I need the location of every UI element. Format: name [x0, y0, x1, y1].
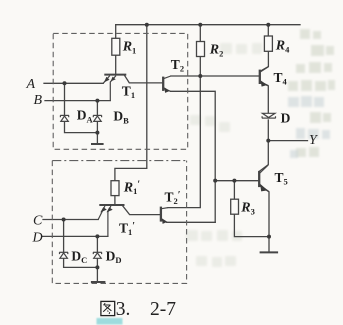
wire DC bottom and link to DD bottom — [64, 258, 98, 267]
ground (output stage) — [260, 251, 279, 253]
wire T5 emitter down to ground — [260, 186, 269, 252]
diode D (output level shift) — [262, 113, 276, 118]
wire R3 bottom leg to emitter junction — [234, 214, 269, 236]
transistor T4 — [260, 67, 269, 86]
wire T1' collector to T2' base — [123, 206, 161, 215]
svg-text:D: D — [32, 231, 43, 246]
node rail-R4 — [266, 23, 270, 27]
wire Vcc top rail — [116, 24, 300, 26]
wire DA bottom and link to DB bottom — [65, 121, 98, 132]
node R3-T5emitter — [267, 235, 271, 239]
svg-text:B: B — [34, 93, 43, 108]
node DA-DB-ground — [95, 131, 99, 135]
wire C input line — [43, 219, 98, 221]
resistor R4 — [264, 36, 272, 51]
node B-DB — [95, 99, 99, 103]
wire T2' emitter run — [167, 221, 215, 223]
wire phase-splitter emitters node to T5 base — [215, 180, 259, 182]
wire R4 top leg — [267, 25, 269, 36]
transistor T1 (multi-emitter input) — [103, 75, 126, 101]
wire T1 collector to T2 base — [125, 75, 163, 83]
wire T2 emitter run and down — [171, 91, 216, 222]
resistor R1' — [111, 181, 119, 196]
node DC-DD-ground — [95, 265, 99, 269]
diode DB — [93, 115, 102, 121]
wire A input line — [44, 82, 103, 84]
transistor T1' (multi-emitter input) — [98, 205, 124, 236]
wire T4 emitter down to diode D — [260, 83, 268, 114]
wire DC vertical top — [63, 220, 65, 252]
wire DD bottom to ground stem — [96, 258, 98, 281]
node rail-R1'feed — [145, 23, 149, 27]
resistor R3 — [231, 199, 239, 214]
caption 图 glyph (drawn) — [101, 301, 115, 315]
diode DC — [59, 252, 68, 258]
transistor T5 — [215, 165, 269, 192]
svg-text:2-7: 2-7 — [150, 299, 176, 320]
svg-text:3.: 3. — [116, 299, 131, 320]
wire output node to Y — [268, 140, 307, 142]
wire T2 collector node to T4 base — [171, 75, 260, 77]
cyan highlight smudge under caption — [97, 318, 123, 325]
wire T4 collector to R4 — [260, 51, 268, 71]
wire DD vertical top — [96, 236, 98, 252]
resistor R2 — [197, 42, 205, 57]
dashed box upper gate — [53, 33, 188, 149]
ground (upper gate) — [91, 143, 104, 145]
node D-DD — [95, 234, 99, 238]
diode DA — [60, 115, 69, 121]
wire Vcc feed down to lower gate R1' — [115, 25, 147, 181]
transistor T2' (phase splitter) — [161, 207, 168, 223]
wire R2 bottom leg — [199, 57, 201, 77]
wire diode D to output node — [267, 120, 269, 141]
resistor R1 — [112, 38, 120, 55]
svg-text:A: A — [26, 77, 36, 92]
dashed box lower gate — [52, 161, 186, 284]
svg-text:D: D — [281, 110, 291, 125]
svg-text:C: C — [33, 214, 43, 229]
wire R1 top leg — [115, 25, 117, 39]
wire DB vertical top — [96, 101, 98, 115]
ground (lower gate) — [91, 281, 106, 283]
node R3 top — [232, 179, 236, 183]
wire B input line — [45, 100, 110, 102]
bleed-through scattered faint chars — [186, 43, 262, 267]
wire R2 node down to T2' collector — [168, 76, 200, 208]
node A-DA — [63, 81, 67, 85]
bleed-through text right margin column — [288, 29, 335, 157]
wire DA vertical top — [64, 83, 66, 115]
wire R2 top leg — [199, 25, 201, 42]
node output Y — [266, 139, 270, 143]
diode DD — [93, 252, 102, 258]
node rail-R2 — [198, 23, 202, 27]
wire R3 top leg — [233, 181, 235, 200]
wire DB bottom to ground stem — [96, 121, 98, 143]
node C-DC — [62, 218, 66, 222]
node R2-T2collector — [198, 74, 202, 78]
wire T5 collector up to output node — [259, 141, 268, 172]
wire R1 bottom leg to T1 base — [115, 55, 117, 74]
bleed-through blue-ish chars — [288, 96, 330, 158]
transistor T2 (phase splitter) — [163, 76, 171, 91]
wire R1' bottom leg to T1' base — [114, 196, 116, 205]
wire D input line — [43, 235, 108, 237]
node emitters-T5base — [213, 179, 217, 183]
